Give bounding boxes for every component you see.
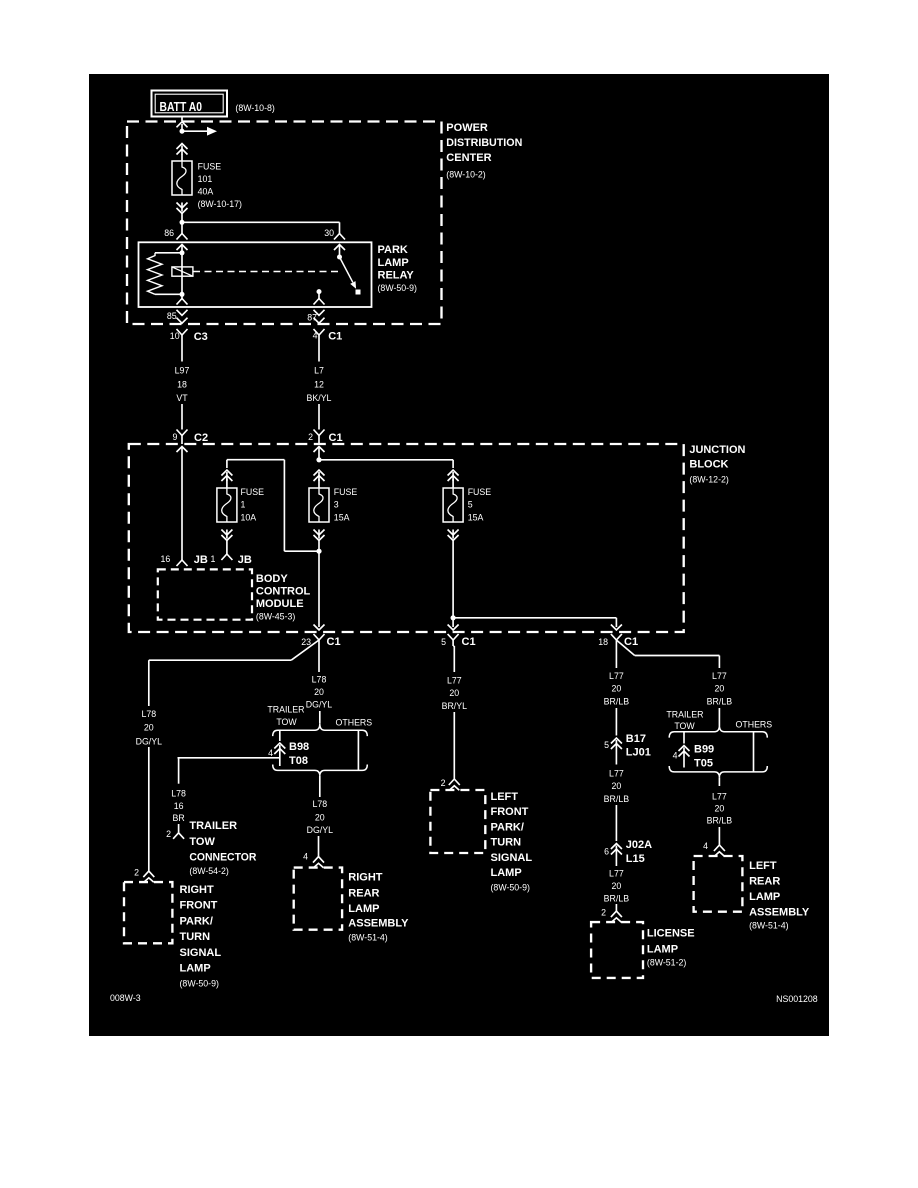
svg-text:FRONT: FRONT bbox=[491, 806, 529, 818]
svg-text:L78: L78 bbox=[312, 799, 327, 809]
svg-text:BR/LB: BR/LB bbox=[707, 815, 733, 825]
svg-text:BK/YL: BK/YL bbox=[307, 393, 332, 403]
svg-text:LAMP: LAMP bbox=[180, 963, 211, 975]
svg-text:RIGHT: RIGHT bbox=[180, 884, 215, 896]
svg-text:PARK: PARK bbox=[378, 244, 408, 256]
svg-text:L77: L77 bbox=[712, 791, 727, 801]
svg-text:(8W-10-17): (8W-10-17) bbox=[198, 199, 242, 209]
svg-text:FUSE: FUSE bbox=[198, 162, 222, 172]
svg-text:5: 5 bbox=[468, 500, 473, 510]
svg-text:JUNCTION: JUNCTION bbox=[689, 444, 745, 456]
svg-text:15A: 15A bbox=[468, 512, 484, 522]
svg-text:RELAY: RELAY bbox=[378, 270, 415, 282]
svg-text:L78: L78 bbox=[312, 674, 327, 684]
svg-text:JB: JB bbox=[238, 554, 252, 566]
svg-text:6: 6 bbox=[604, 847, 609, 857]
svg-text:3: 3 bbox=[334, 500, 339, 510]
svg-text:ASSEMBLY: ASSEMBLY bbox=[749, 907, 810, 919]
svg-text:LAMP: LAMP bbox=[491, 867, 522, 879]
svg-text:1: 1 bbox=[210, 554, 215, 564]
svg-text:85: 85 bbox=[167, 311, 177, 321]
svg-text:CONNECTOR: CONNECTOR bbox=[189, 852, 256, 864]
svg-text:4: 4 bbox=[673, 751, 678, 761]
svg-text:L78: L78 bbox=[141, 709, 156, 719]
svg-text:C1: C1 bbox=[328, 331, 342, 343]
svg-text:POWER: POWER bbox=[446, 122, 488, 134]
svg-text:C2: C2 bbox=[194, 432, 208, 444]
svg-text:BLOCK: BLOCK bbox=[689, 459, 728, 471]
svg-text:REAR: REAR bbox=[749, 876, 780, 888]
svg-text:LEFT: LEFT bbox=[491, 791, 519, 803]
svg-text:L15: L15 bbox=[626, 853, 645, 865]
svg-text:(8W-10-2): (8W-10-2) bbox=[446, 170, 486, 180]
svg-text:FRONT: FRONT bbox=[180, 900, 218, 912]
svg-text:TURN: TURN bbox=[491, 837, 522, 849]
svg-text:T05: T05 bbox=[694, 758, 713, 770]
svg-text:LAMP: LAMP bbox=[647, 944, 678, 956]
svg-text:20: 20 bbox=[449, 688, 459, 698]
svg-text:TRAILER: TRAILER bbox=[267, 705, 304, 715]
svg-text:(8W-51-2): (8W-51-2) bbox=[647, 958, 687, 968]
svg-text:2: 2 bbox=[134, 867, 139, 877]
svg-text:BATT A0: BATT A0 bbox=[160, 99, 203, 114]
svg-text:4: 4 bbox=[268, 748, 273, 758]
svg-text:L77: L77 bbox=[609, 769, 624, 779]
svg-text:2: 2 bbox=[441, 778, 446, 788]
svg-text:18: 18 bbox=[177, 380, 187, 390]
svg-text:DG/YL: DG/YL bbox=[136, 736, 163, 746]
svg-text:(8W-12-2): (8W-12-2) bbox=[689, 475, 729, 485]
svg-text:LEFT: LEFT bbox=[749, 860, 777, 872]
svg-text:PARK/: PARK/ bbox=[491, 821, 524, 833]
svg-text:ASSEMBLY: ASSEMBLY bbox=[348, 918, 409, 930]
svg-text:86: 86 bbox=[164, 228, 174, 238]
svg-text:L77: L77 bbox=[447, 675, 462, 685]
svg-text:C1: C1 bbox=[327, 636, 341, 648]
svg-text:101: 101 bbox=[198, 174, 213, 184]
svg-text:JB: JB bbox=[194, 554, 208, 566]
svg-text:DG/YL: DG/YL bbox=[307, 825, 334, 835]
svg-text:23: 23 bbox=[301, 637, 311, 647]
svg-text:L77: L77 bbox=[609, 671, 624, 681]
svg-text:87: 87 bbox=[307, 313, 317, 323]
svg-text:2: 2 bbox=[308, 432, 313, 442]
svg-text:20: 20 bbox=[314, 687, 324, 697]
svg-text:5: 5 bbox=[604, 740, 609, 750]
svg-text:(8W-50-9): (8W-50-9) bbox=[378, 283, 418, 293]
svg-text:16: 16 bbox=[174, 801, 184, 811]
svg-text:BR/LB: BR/LB bbox=[604, 696, 630, 706]
svg-text:C1: C1 bbox=[329, 432, 343, 444]
svg-text:DG/YL: DG/YL bbox=[306, 700, 333, 710]
svg-text:T08: T08 bbox=[289, 755, 308, 767]
svg-text:B17: B17 bbox=[626, 733, 646, 745]
svg-text:L78: L78 bbox=[171, 789, 186, 799]
svg-text:4: 4 bbox=[303, 852, 308, 862]
svg-text:(8W-51-4): (8W-51-4) bbox=[348, 933, 388, 943]
svg-text:LICENSE: LICENSE bbox=[647, 928, 695, 940]
svg-text:RIGHT: RIGHT bbox=[348, 872, 383, 884]
svg-text:L97: L97 bbox=[175, 366, 190, 376]
svg-text:(8W-45-3): (8W-45-3) bbox=[256, 612, 296, 622]
svg-text:(8W-10-8): (8W-10-8) bbox=[235, 103, 275, 113]
svg-text:REAR: REAR bbox=[348, 887, 379, 899]
svg-text:FUSE: FUSE bbox=[334, 487, 358, 497]
svg-text:40A: 40A bbox=[198, 187, 214, 197]
svg-text:20: 20 bbox=[315, 812, 325, 822]
svg-text:LAMP: LAMP bbox=[348, 903, 379, 915]
svg-text:18: 18 bbox=[598, 637, 608, 647]
svg-text:10A: 10A bbox=[241, 512, 257, 522]
svg-text:16: 16 bbox=[161, 554, 171, 564]
svg-text:MODULE: MODULE bbox=[256, 598, 304, 610]
svg-text:008W-3: 008W-3 bbox=[110, 993, 141, 1003]
svg-text:NS001208: NS001208 bbox=[776, 994, 818, 1004]
svg-text:20: 20 bbox=[612, 781, 622, 791]
svg-text:C3: C3 bbox=[194, 331, 208, 343]
svg-text:12: 12 bbox=[314, 380, 324, 390]
svg-text:B99: B99 bbox=[694, 744, 714, 756]
svg-text:TURN: TURN bbox=[180, 931, 211, 943]
svg-text:4: 4 bbox=[703, 841, 708, 851]
svg-text:2: 2 bbox=[166, 829, 171, 839]
svg-text:LAMP: LAMP bbox=[378, 257, 409, 269]
svg-text:20: 20 bbox=[144, 723, 154, 733]
svg-text:J02A: J02A bbox=[626, 839, 652, 851]
svg-text:DISTRIBUTION: DISTRIBUTION bbox=[446, 137, 522, 149]
svg-text:20: 20 bbox=[612, 881, 622, 891]
svg-text:20: 20 bbox=[612, 684, 622, 694]
svg-text:L77: L77 bbox=[712, 671, 727, 681]
svg-text:30: 30 bbox=[324, 228, 334, 238]
svg-text:TRAILER: TRAILER bbox=[666, 710, 703, 720]
svg-text:B98: B98 bbox=[289, 741, 309, 753]
svg-text:VT: VT bbox=[176, 393, 188, 403]
svg-text:SIGNAL: SIGNAL bbox=[491, 852, 533, 864]
svg-text:9: 9 bbox=[172, 432, 177, 442]
svg-text:BODY: BODY bbox=[256, 573, 288, 585]
svg-text:OTHERS: OTHERS bbox=[736, 720, 773, 730]
svg-text:CENTER: CENTER bbox=[446, 152, 491, 164]
svg-text:FUSE: FUSE bbox=[468, 487, 492, 497]
svg-text:LAMP: LAMP bbox=[749, 891, 780, 903]
svg-text:C1: C1 bbox=[462, 636, 476, 648]
svg-text:BR/LB: BR/LB bbox=[604, 794, 630, 804]
svg-text:BR/LB: BR/LB bbox=[604, 894, 630, 904]
svg-text:5: 5 bbox=[441, 637, 446, 647]
svg-text:TOW: TOW bbox=[674, 721, 695, 731]
svg-text:BR/LB: BR/LB bbox=[707, 696, 733, 706]
svg-text:15A: 15A bbox=[334, 512, 350, 522]
svg-text:L7: L7 bbox=[314, 366, 324, 376]
svg-text:TOW: TOW bbox=[189, 836, 215, 848]
svg-text:SIGNAL: SIGNAL bbox=[180, 947, 222, 959]
svg-text:PARK/: PARK/ bbox=[180, 915, 213, 927]
svg-text:20: 20 bbox=[715, 803, 725, 813]
svg-text:L77: L77 bbox=[609, 868, 624, 878]
svg-text:LJ01: LJ01 bbox=[626, 747, 651, 759]
svg-text:(8W-50-9): (8W-50-9) bbox=[491, 883, 531, 893]
svg-text:TRAILER: TRAILER bbox=[189, 820, 237, 832]
svg-text:OTHERS: OTHERS bbox=[336, 717, 373, 727]
svg-text:10: 10 bbox=[170, 331, 180, 341]
svg-text:2: 2 bbox=[601, 908, 606, 918]
svg-text:(8W-50-9): (8W-50-9) bbox=[180, 979, 220, 989]
svg-text:FUSE: FUSE bbox=[241, 487, 265, 497]
svg-text:TOW: TOW bbox=[276, 717, 297, 727]
svg-text:(8W-54-2): (8W-54-2) bbox=[189, 866, 229, 876]
svg-text:CONTROL: CONTROL bbox=[256, 586, 311, 598]
svg-text:BR/YL: BR/YL bbox=[442, 701, 468, 711]
svg-text:1: 1 bbox=[241, 500, 246, 510]
svg-text:C1: C1 bbox=[624, 636, 638, 648]
svg-text:20: 20 bbox=[715, 684, 725, 694]
svg-text:BR: BR bbox=[172, 813, 184, 823]
svg-text:(8W-51-4): (8W-51-4) bbox=[749, 921, 789, 931]
